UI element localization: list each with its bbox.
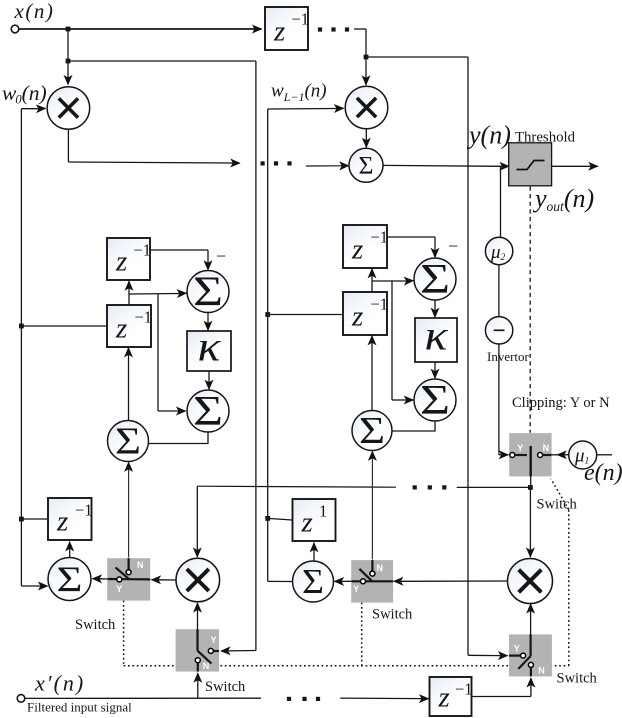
- wire ellipsis x-prime: [287, 697, 291, 701]
- svg-text:Y: Y: [353, 584, 359, 594]
- svg-text:−1: −1: [75, 501, 93, 520]
- delay Z6 z^-1 bottom-left: [48, 498, 92, 540]
- svg-text:Switch: Switch: [75, 617, 116, 633]
- summer S7 middle: [352, 411, 392, 451]
- wire M4 output into SW2: [401, 580, 508, 582]
- summer S9 bottom-middle: [293, 561, 334, 602]
- switch SW3: [176, 629, 219, 671]
- junction second x tap: [66, 59, 71, 64]
- wire w0 tap from Z6: [21, 518, 47, 520]
- wire SW3 common up into M3: [197, 610, 199, 651]
- delay Z5 z^-1 middle: [343, 292, 387, 335]
- wire x-prime up into SW3 N: [197, 681, 199, 698]
- wire top tap to right bus for switch SW4: [366, 56, 468, 58]
- wire tap to summer S2: [129, 293, 180, 296]
- multiplier M4: [508, 559, 553, 604]
- wire: dotted control bus from clipping switch to lower switches: [123, 601, 125, 666]
- svg-text:z: z: [351, 301, 363, 333]
- svg-text:−1: −1: [371, 295, 389, 314]
- wire SW4 common up into M4: [530, 611, 532, 656]
- multiplier M3: [176, 558, 220, 602]
- svg-text:N: N: [203, 661, 210, 671]
- junction top-right tap: [364, 55, 369, 60]
- wire y(n) tap down to mu2: [500, 166, 502, 237]
- svg-text:Clipping: Y or N: Clipping: Y or N: [512, 395, 610, 411]
- delay Z4 z^-1 middle: [343, 225, 387, 268]
- wire tap branch down to summer S6: [391, 281, 393, 400]
- wire ellipsis after Z1: [318, 27, 322, 31]
- wire weight w0 bus: [21, 108, 38, 110]
- node input x(n): [11, 25, 19, 33]
- svg-text:yout(n): yout(n): [532, 184, 594, 214]
- svg-text:x′(n): x′(n): [34, 671, 85, 696]
- svg-text:−1: −1: [134, 241, 152, 260]
- delay Z3 z^-1 left: [107, 305, 151, 347]
- summer S1 output y(n): [349, 148, 383, 182]
- summer S3 left: [187, 390, 229, 432]
- svg-text:x(n): x(n): [14, 0, 55, 23]
- svg-text:Switch: Switch: [537, 497, 578, 513]
- svg-text:Switch: Switch: [372, 607, 413, 623]
- wire e(n) into mu1: [597, 454, 612, 456]
- wire wL-1 bus into summer S9: [268, 580, 293, 582]
- wire tap branch down to summer S3: [157, 294, 159, 411]
- svg-text:Σ: Σ: [420, 257, 450, 303]
- wire S4 up to Z3: [128, 354, 130, 421]
- switch SW1: [107, 558, 150, 600]
- svg-text:−1: −1: [455, 680, 473, 699]
- svg-text:Σ: Σ: [193, 389, 223, 435]
- wire M2 output into summer S1: [365, 129, 367, 140]
- svg-text:Switch: Switch: [205, 679, 246, 695]
- svg-text:w0(n): w0(n): [2, 81, 47, 107]
- multiplier M2 x(n-L+1)*wL-1: [345, 86, 388, 129]
- wire K1 to summer S3: [208, 371, 210, 382]
- svg-text:Invertor: Invertor: [487, 349, 530, 364]
- wire wL-1 tap from Z7: [268, 518, 292, 520]
- wire SW5 common down to junction: [530, 476, 532, 487]
- wire w0 bus into summer S8: [21, 585, 40, 587]
- wire Z8 output up into SW4 N: [530, 686, 532, 697]
- svg-text:1: 1: [319, 502, 327, 521]
- svg-text:Σ: Σ: [420, 378, 450, 424]
- svg-text:Σ: Σ: [115, 421, 141, 463]
- wire S8 up to Z6: [69, 549, 71, 557]
- wire SW1 N up stub: [128, 558, 130, 569]
- delay Z2 z^-1 left: [107, 238, 150, 280]
- junction w0 to Z3: [19, 324, 24, 329]
- wire mu2 to invertor: [498, 266, 500, 317]
- svg-text:Y: Y: [514, 644, 520, 654]
- svg-text:Σ: Σ: [57, 559, 83, 599]
- svg-text:N: N: [377, 563, 384, 573]
- svg-text:−1: −1: [135, 308, 153, 327]
- threshold block: [509, 143, 552, 186]
- wire S5 to kappa K2: [434, 300, 436, 310]
- junction w0 to Z6: [19, 517, 24, 522]
- summer S5 middle: [414, 258, 456, 300]
- invertor circle: [485, 317, 512, 344]
- junction wL-1 to Z5: [265, 312, 270, 317]
- svg-text:Σ: Σ: [359, 153, 374, 180]
- delay Z1 z^-1: [265, 7, 308, 50]
- wire mu1 to SW5 N port: [542, 454, 558, 456]
- wire w0 tap to Z3: [21, 325, 106, 327]
- wire Z4 output to summer S5 minus: [387, 236, 435, 238]
- svg-text:Y: Y: [116, 584, 122, 594]
- svg-text:Σ: Σ: [359, 410, 385, 452]
- gain K2 kappa: [415, 318, 457, 362]
- summer S6 middle: [414, 379, 456, 421]
- svg-text:z: z: [273, 16, 285, 48]
- node input x-prime: [17, 695, 25, 703]
- summer S2 left: [187, 271, 229, 313]
- wire tap to summer S5: [372, 280, 407, 282]
- svg-text:Σ: Σ: [302, 562, 324, 601]
- wire S3 output to summer S4: [149, 432, 208, 444]
- wire chain into summer S1: [306, 165, 342, 167]
- wire wL-1 tap to Z5: [268, 314, 342, 316]
- svg-text:N: N: [538, 666, 545, 676]
- svg-text:Switch: Switch: [557, 671, 598, 687]
- multiplier M1 x(n)*w0: [47, 87, 90, 130]
- wire S2 to kappa K1: [207, 313, 209, 324]
- svg-text:N: N: [543, 443, 550, 453]
- junction on x(n) line: [66, 27, 71, 32]
- wire error feedback down to multiplier M3: [196, 486, 198, 549]
- svg-text:z: z: [115, 313, 127, 345]
- wire switch SW2 N up to S7: [371, 458, 373, 560]
- svg-text:N: N: [137, 560, 144, 570]
- svg-text:z: z: [351, 234, 363, 266]
- svg-text:κ: κ: [198, 325, 222, 371]
- svg-text:−: −: [216, 246, 226, 266]
- wire invertor to clipping switch Y: [498, 345, 500, 455]
- svg-text:Σ: Σ: [193, 270, 223, 316]
- wire error feedback down to multiplier M4: [529, 487, 531, 549]
- delay Z7 z^1 bottom-middle: [293, 499, 336, 541]
- wire K2 to summer S6: [434, 362, 436, 371]
- svg-text:Filtered input signal: Filtered input signal: [27, 700, 132, 715]
- gain mu2: [485, 237, 512, 264]
- wire M1 output to summation chain: [67, 129, 69, 162]
- svg-text:e(n): e(n): [584, 460, 622, 486]
- wire error feedback line to left: [457, 486, 531, 488]
- gain K1 kappa: [187, 331, 231, 371]
- svg-text:Y: Y: [517, 443, 523, 453]
- wire weight wL-1 bus: [268, 108, 336, 111]
- svg-text:z: z: [56, 506, 68, 538]
- delay Z8 z^-1 bottom: [430, 677, 472, 716]
- wire SW1 Y output into S8: [101, 578, 109, 580]
- switch SW4: [509, 634, 552, 676]
- wire to second tap corner: [354, 28, 366, 30]
- wire switch SW1 N up to S4: [128, 469, 130, 558]
- wire M3 output into SW1: [159, 579, 176, 581]
- wire dashed control from threshold to clipping switch: [529, 187, 531, 433]
- wire x(n) tap down to multiplier M1: [67, 29, 69, 85]
- wire ellipsis summation chain: [261, 161, 265, 165]
- svg-text:−1: −1: [371, 228, 389, 247]
- svg-text:z: z: [115, 246, 127, 278]
- summer S4 left: [108, 421, 149, 462]
- wire S1 to threshold: [383, 164, 502, 167]
- svg-text:y(n): y(n): [466, 121, 511, 150]
- gain mu1: [569, 441, 597, 469]
- wire Z5 to Z4: [371, 276, 373, 292]
- wire Z2 output to summer S2 minus: [150, 249, 208, 251]
- junction error feedback: [528, 485, 533, 490]
- wire x tap to vertical bus for switch SW3: [68, 60, 256, 62]
- svg-text:−: −: [448, 236, 458, 256]
- switch SW2: [351, 560, 393, 603]
- wire SW2 Y output into S9: [342, 580, 352, 582]
- wire x-prime into delay Z8: [340, 697, 421, 700]
- wire Z3 to Z2: [128, 288, 130, 305]
- svg-text:−1: −1: [292, 10, 310, 29]
- svg-text:κ: κ: [425, 314, 449, 360]
- wire threshold output arrow: [552, 165, 590, 167]
- wire S7 up to Z5: [371, 342, 373, 411]
- svg-text:z: z: [301, 507, 313, 539]
- wire S9 up to Z7: [313, 550, 315, 562]
- wire x-prime line: [25, 697, 261, 699]
- junction wL-1 to Z7: [265, 516, 270, 521]
- wire x(n) to delay Z1: [19, 28, 262, 30]
- svg-text:Y: Y: [210, 635, 216, 645]
- switch SW5 clipping: [509, 433, 551, 476]
- wire S6 output to summer S7: [393, 421, 436, 431]
- svg-text:z: z: [438, 682, 450, 714]
